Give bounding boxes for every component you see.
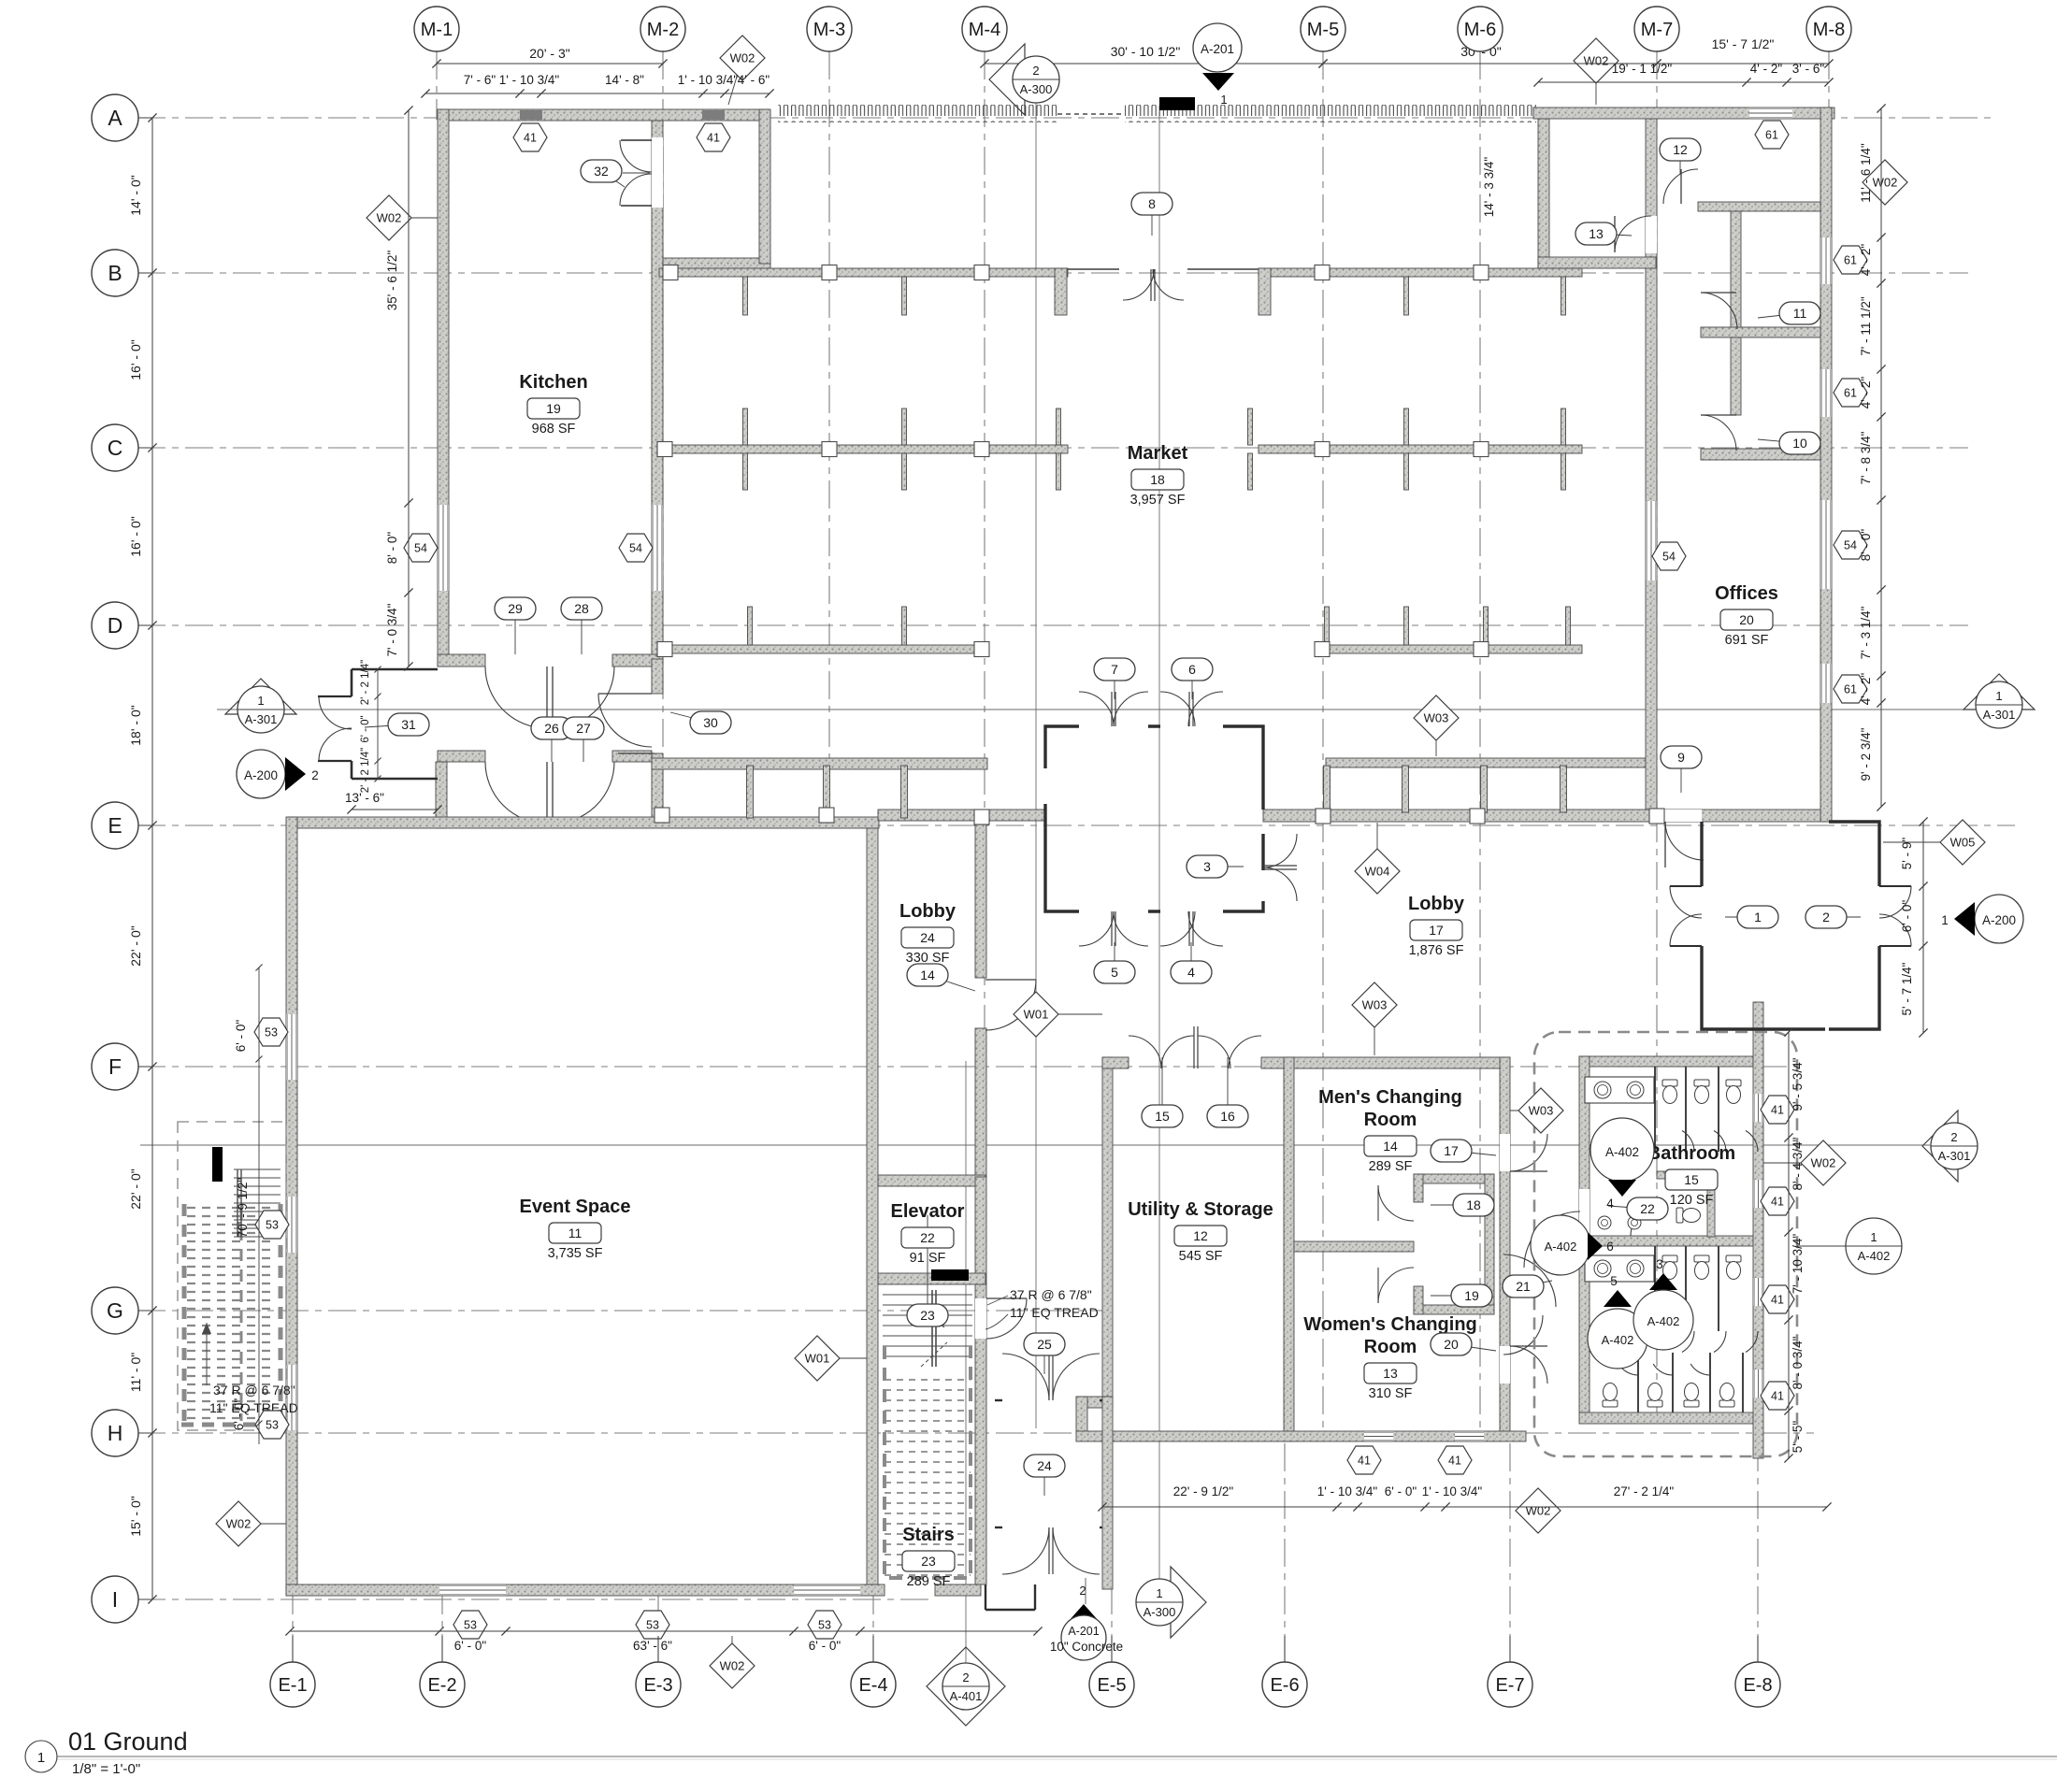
svg-text:24: 24 [920, 930, 935, 945]
grid E wall between event space and vestibule [878, 810, 1045, 821]
door tag 32 [601, 171, 625, 187]
svg-text:26: 26 [544, 721, 559, 736]
market shelf row C fins [743, 409, 748, 445]
svg-text:W02: W02 [226, 1517, 252, 1531]
svg-text:16: 16 [1220, 1109, 1235, 1124]
market shelf wall row C east [1259, 445, 1582, 453]
corridor south wall east segment [612, 751, 652, 762]
svg-text:D: D [108, 613, 123, 638]
svg-text:53: 53 [646, 1619, 659, 1632]
stair treads dashed lower [885, 1379, 971, 1381]
svg-text:29: 29 [508, 601, 523, 616]
svg-text:Stairs: Stairs [902, 1525, 955, 1545]
mens bathroom stall partitions [1654, 1067, 1656, 1152]
elevator door solid bar [931, 1269, 969, 1281]
grid bubble M-5 [1322, 29, 1324, 51]
mens bathroom sink counter [1585, 1077, 1654, 1103]
keynote hexagon 54 [1652, 542, 1686, 570]
grid bubble I [115, 1598, 152, 1600]
bathroom east dimension chain [1788, 1032, 1790, 1458]
bottom left dimension row [290, 1630, 1038, 1632]
market south storage partitions west [747, 766, 754, 818]
svg-text:A-201: A-201 [1201, 42, 1234, 56]
svg-text:4: 4 [1606, 1197, 1614, 1211]
svg-text:H: H [108, 1421, 123, 1445]
svg-text:6' - 0": 6' - 0" [809, 1639, 841, 1653]
alcove south wall [1414, 1305, 1494, 1314]
door tag 31 [365, 724, 409, 727]
svg-text:691 SF: 691 SF [1725, 633, 1769, 648]
keynote hexagon 41 [1761, 1285, 1794, 1313]
kitchen west dimension chain [408, 110, 410, 667]
svg-text:53: 53 [818, 1619, 831, 1632]
svg-text:A: A [108, 106, 122, 130]
svg-text:1: 1 [1220, 93, 1227, 107]
keynote hexagon 53 [255, 1211, 289, 1239]
svg-text:E-3: E-3 [643, 1675, 672, 1696]
svg-text:8' - 4 3/4": 8' - 4 3/4" [1791, 1137, 1805, 1190]
grid bubble M-4 [984, 29, 985, 51]
svg-text:01 Ground: 01 Ground [68, 1727, 188, 1756]
svg-text:32: 32 [594, 164, 609, 179]
utility west wall [1102, 1057, 1113, 1397]
svg-text:61: 61 [1844, 683, 1857, 696]
door tag 27 [583, 728, 584, 762]
door tag 7 [1114, 669, 1115, 699]
womens bathroom toilets lower [1603, 1383, 1618, 1408]
svg-text:21: 21 [1516, 1279, 1531, 1294]
west entry vestibule walls [352, 668, 438, 671]
event space south wall [286, 1584, 885, 1596]
grid bubble C [115, 447, 152, 449]
svg-text:16' - 0": 16' - 0" [128, 516, 143, 556]
svg-text:54: 54 [629, 542, 642, 555]
svg-text:W05: W05 [1950, 836, 1976, 850]
keynote hexagon 53 [254, 1018, 288, 1046]
offices east wall [1820, 108, 1832, 822]
wall tag W01 [817, 1357, 867, 1359]
svg-text:9' - 5 3/4": 9' - 5 3/4" [1791, 1057, 1805, 1111]
lobby 24 east wall upper [975, 817, 986, 978]
mens room south wall [1294, 1241, 1414, 1252]
svg-text:17: 17 [1444, 1143, 1459, 1158]
svg-text:11' - 6 1/4": 11' - 6 1/4" [1859, 143, 1873, 203]
stair treads solid upper flight [883, 1294, 972, 1296]
door tag 23 [928, 1315, 944, 1327]
svg-text:1' - 10 3/4": 1' - 10 3/4" [1317, 1484, 1378, 1498]
svg-text:12: 12 [1193, 1228, 1208, 1243]
wall tag W02 [1595, 61, 1597, 105]
grid bubble M-1 [436, 29, 438, 51]
wall tag W02 [731, 1636, 733, 1666]
small storage room east wall [759, 109, 770, 264]
keynote hexagon 41 [1761, 1382, 1794, 1410]
offices storage west wall [1538, 119, 1549, 268]
svg-text:18: 18 [1466, 1197, 1481, 1212]
svg-text:4' - 2": 4' - 2" [1859, 377, 1873, 409]
door 27 swing [553, 762, 614, 824]
svg-text:Bathroom: Bathroom [1647, 1143, 1735, 1164]
svg-text:4' - 2": 4' - 2" [1859, 673, 1873, 706]
wall tag W03 [1510, 1110, 1541, 1111]
keynote hexagon 54 [404, 534, 438, 562]
svg-text:M-2: M-2 [647, 20, 679, 40]
wall tag W03 [1435, 718, 1437, 756]
svg-text:W02: W02 [720, 1659, 745, 1673]
grid line E-8 [1757, 1458, 1759, 1662]
stair lobby door wall upper [995, 1399, 1002, 1401]
svg-text:C: C [108, 436, 123, 460]
svg-text:41: 41 [707, 132, 720, 145]
event space west wall [286, 817, 297, 1596]
svg-text:G: G [107, 1298, 123, 1323]
grid bubble M-3 [828, 29, 830, 51]
grid bubble E-7 [1509, 1636, 1511, 1662]
event space east wall [867, 828, 878, 1584]
keynote hexagon 53 [453, 1611, 487, 1639]
grid bubble M-6 [1479, 29, 1481, 51]
svg-text:5: 5 [1610, 1274, 1618, 1288]
svg-text:8' - 0": 8' - 0" [1859, 529, 1873, 562]
svg-text:A-402: A-402 [1858, 1249, 1891, 1263]
door 28 swing [553, 667, 614, 728]
door 29 swing [485, 667, 547, 728]
bathroom east wall [1753, 1002, 1763, 1458]
svg-text:W02: W02 [1584, 54, 1609, 68]
door 11 leaf and swing [1701, 292, 1736, 294]
grid bubble E [115, 824, 152, 826]
wall tag W04 [1376, 823, 1378, 871]
section line 2/A-401 vertical [965, 1061, 967, 1664]
svg-text:31: 31 [401, 717, 416, 732]
svg-text:22: 22 [1640, 1201, 1655, 1216]
svg-text:E-4: E-4 [858, 1675, 887, 1696]
svg-text:M-3: M-3 [813, 20, 845, 40]
door 9 leaf and swing [1664, 822, 1666, 867]
grid line I [137, 1598, 935, 1600]
svg-text:18' - 0": 18' - 0" [128, 705, 143, 745]
svg-text:11" EQ TREAD: 11" EQ TREAD [1010, 1305, 1099, 1320]
grid line M-6 [1479, 51, 1481, 1433]
door 19 swing [1378, 1268, 1414, 1303]
svg-text:M-4: M-4 [969, 20, 1000, 40]
svg-text:54: 54 [414, 542, 427, 555]
market south wall west segment [652, 758, 987, 769]
womens bathroom toilets upper [1662, 1255, 1677, 1280]
wall tag W02 [1516, 1488, 1561, 1533]
door 23 leaf and swing [986, 1297, 1027, 1299]
svg-text:5' - 9": 5' - 9" [1900, 838, 1914, 870]
svg-text:20' - 3": 20' - 3" [529, 46, 569, 61]
keynote hexagon 41 [513, 123, 547, 151]
changing rooms east wall [1500, 1057, 1510, 1433]
west stair guide arrow [206, 1323, 208, 1385]
corridor west joint wall [436, 762, 447, 828]
svg-text:3,957 SF: 3,957 SF [1130, 493, 1186, 508]
grid bubble M-7 [1656, 29, 1658, 51]
market shelf wall row D east [1317, 645, 1582, 653]
svg-text:30' - 10 1/2": 30' - 10 1/2" [1111, 44, 1181, 59]
grid bubble M-8 [1828, 29, 1830, 51]
door tag 1 [1725, 916, 1758, 918]
svg-text:4: 4 [1187, 965, 1195, 980]
kitchen south wall west segment [438, 654, 485, 667]
utility and changing divider wall [1284, 1057, 1294, 1441]
svg-text:22' - 0": 22' - 0" [128, 1168, 143, 1209]
door 8 double swing at market north [1150, 269, 1152, 301]
svg-text:1: 1 [1995, 689, 2002, 703]
svg-text:63' - 6": 63' - 6" [633, 1639, 672, 1653]
svg-text:E-2: E-2 [427, 1675, 456, 1696]
offices south wall at grid E [1263, 810, 1827, 822]
title view number circle [25, 1741, 57, 1772]
svg-text:54: 54 [1662, 551, 1676, 564]
grid line C [137, 447, 1968, 449]
svg-text:7' - 0 3/4": 7' - 0 3/4" [385, 603, 399, 656]
svg-text:W01: W01 [1024, 1008, 1049, 1022]
bathroom west wall [1579, 1056, 1589, 1412]
grid line E-2 [441, 1589, 443, 1662]
svg-text:W02: W02 [1811, 1156, 1836, 1170]
market east wall [1646, 108, 1657, 810]
door 26 swing [485, 762, 547, 824]
door tag 5 [1114, 942, 1115, 972]
market south wall east segment [1326, 758, 1650, 767]
svg-text:41: 41 [1771, 1196, 1784, 1209]
svg-text:E-1: E-1 [278, 1675, 307, 1696]
grid bubble E-2 [441, 1636, 443, 1662]
svg-text:E: E [108, 813, 122, 838]
keynote hexagon 41 [697, 123, 730, 151]
svg-text:W03: W03 [1424, 711, 1449, 725]
keynote hexagon 41 [1761, 1096, 1794, 1124]
svg-text:1,876 SF: 1,876 SF [1409, 943, 1464, 958]
svg-text:7: 7 [1111, 662, 1118, 677]
section line 2/A-300 vertical [1035, 102, 1037, 1428]
door tag 11 [1758, 313, 1800, 318]
door 20 swing [1510, 1346, 1547, 1383]
bottom middle dimension row [1102, 1506, 1827, 1508]
svg-text:W04: W04 [1365, 865, 1390, 879]
svg-text:1: 1 [37, 1750, 45, 1766]
bathroom middle wall [1579, 1236, 1762, 1246]
door 13 swing [1615, 216, 1651, 252]
svg-text:A-301: A-301 [245, 712, 278, 726]
svg-text:37 R @ 6 7/8": 37 R @ 6 7/8" [1010, 1287, 1092, 1302]
svg-text:7' - 11 1/2": 7' - 11 1/2" [1859, 296, 1873, 356]
svg-text:70' - 9 1/2": 70' - 9 1/2" [236, 1178, 250, 1239]
svg-text:9: 9 [1677, 750, 1685, 765]
svg-text:13' - 6": 13' - 6" [345, 791, 384, 805]
lobby 24 east wall lower [975, 1028, 986, 1177]
svg-text:6' - 0": 6' - 0" [1385, 1484, 1417, 1498]
svg-text:19' - 1 1/2": 19' - 1 1/2" [1612, 62, 1673, 76]
svg-text:Room: Room [1364, 1337, 1417, 1357]
keynote hexagon 41 [1347, 1446, 1381, 1474]
wall tag W03 [1374, 1005, 1375, 1055]
right grid dimension chain [1880, 108, 1882, 807]
event west dimension chain [258, 968, 260, 1444]
svg-text:1: 1 [1754, 910, 1762, 925]
svg-text:6' - 0": 6' - 0" [1900, 900, 1914, 933]
svg-text:A-402: A-402 [1647, 1314, 1680, 1328]
alcove east wall [1485, 1174, 1494, 1314]
svg-text:28: 28 [574, 601, 589, 616]
door tag 26 [551, 728, 553, 762]
dimension 30'-0" M-5 to M-7 [1323, 63, 1657, 65]
svg-text:Room: Room [1364, 1110, 1417, 1130]
svg-text:14' - 0": 14' - 0" [128, 175, 143, 215]
section marker 1/A-301 right [1963, 674, 2035, 710]
svg-text:4' - 6": 4' - 6" [738, 73, 770, 87]
svg-text:1' - 10 3/4": 1' - 10 3/4" [1422, 1484, 1483, 1498]
svg-text:25: 25 [1037, 1337, 1052, 1352]
mens lower sinks [1598, 1216, 1611, 1229]
svg-text:30: 30 [703, 715, 718, 730]
door 4 double swing [1160, 911, 1195, 946]
storefront glazing north wall [778, 105, 1057, 122]
womens bathroom stall partitions lower [1637, 1353, 1639, 1412]
kitchen north wall [438, 109, 770, 121]
womens bathroom sink counter [1585, 1255, 1654, 1282]
svg-text:2' - 2 1/4": 2' - 2 1/4" [360, 748, 371, 793]
door 18 swing [1378, 1185, 1414, 1221]
door 1 double swing [1670, 885, 1702, 887]
door tag 24 [1043, 1466, 1045, 1496]
stair east wall [975, 1284, 986, 1584]
svg-text:13: 13 [1589, 226, 1604, 241]
door tag 19 [1431, 1295, 1472, 1297]
dimension 30'-10 1/2" M-4 to M-5 [985, 63, 1323, 65]
wall tag W02 [389, 217, 438, 219]
svg-text:16' - 0": 16' - 0" [128, 339, 143, 380]
offices storage south wall [1538, 257, 1656, 268]
svg-text:61: 61 [1765, 129, 1778, 142]
svg-text:2: 2 [1032, 64, 1039, 78]
grid bubble E-1 [292, 1636, 294, 1662]
grid line M-4 [984, 51, 985, 1057]
svg-text:1: 1 [1870, 1230, 1877, 1244]
svg-text:Lobby: Lobby [1408, 894, 1465, 914]
elevator north wall [878, 1175, 985, 1186]
wall tag W02 [1863, 160, 1907, 205]
svg-text:14: 14 [1383, 1139, 1398, 1154]
svg-text:E-6: E-6 [1270, 1675, 1299, 1696]
grid line E-1 [292, 828, 294, 1662]
svg-text:14: 14 [920, 968, 935, 982]
stair break line [921, 1342, 947, 1367]
door 5 double swing [1079, 911, 1114, 946]
market shelf row B junctions [663, 265, 678, 280]
svg-text:M-6: M-6 [1464, 20, 1496, 40]
svg-text:12: 12 [1673, 142, 1688, 157]
svg-text:14' - 3 3/4": 14' - 3 3/4" [1482, 157, 1496, 218]
svg-text:6' - 0": 6' - 0" [454, 1639, 487, 1653]
svg-text:3: 3 [1203, 859, 1211, 874]
svg-text:5: 5 [1111, 965, 1118, 980]
keynote hexagon 53 [808, 1611, 841, 1639]
grid line E-7 [1509, 1441, 1511, 1662]
wall tag W05 [1883, 841, 1963, 843]
svg-text:A-402: A-402 [1605, 1145, 1639, 1159]
svg-text:13: 13 [1383, 1366, 1398, 1381]
door 32 double leaf and swing [621, 139, 652, 141]
svg-text:23: 23 [920, 1308, 935, 1323]
vestibule west dimension chain [377, 669, 379, 779]
svg-text:6' - 0": 6' - 0" [360, 715, 371, 742]
svg-text:27' - 2 1/4": 27' - 2 1/4" [1614, 1484, 1675, 1498]
svg-text:3: 3 [1656, 1257, 1663, 1271]
svg-text:54: 54 [1844, 539, 1857, 552]
svg-text:5' - 7 1/4": 5' - 7 1/4" [1900, 962, 1914, 1015]
offices north wall [1533, 108, 1834, 119]
dimension 20'-3" M-1 to M-2 [437, 63, 663, 65]
mens bathroom toilets [1662, 1080, 1677, 1104]
svg-text:22' - 0": 22' - 0" [128, 925, 143, 966]
grid line M-3 [828, 51, 830, 825]
market shelf wall row C west [659, 445, 1068, 453]
svg-text:6' - 0": 6' - 0" [234, 1020, 248, 1053]
alcove west stubs [1414, 1174, 1423, 1202]
svg-text:6: 6 [1606, 1240, 1614, 1254]
svg-text:Women's Changing: Women's Changing [1303, 1314, 1477, 1335]
door tag 25 [1043, 1344, 1045, 1374]
kitchen west wall [438, 109, 449, 667]
door 31 double leaves and swings [318, 695, 352, 697]
svg-text:61: 61 [1844, 387, 1857, 400]
svg-text:Kitchen: Kitchen [519, 372, 587, 393]
svg-text:E-5: E-5 [1097, 1675, 1126, 1696]
door 21 swing arc [1503, 1254, 1556, 1307]
market north sill line [770, 268, 1119, 270]
svg-text:W03: W03 [1529, 1104, 1554, 1118]
svg-text:W02: W02 [377, 211, 402, 225]
svg-text:5' - 5": 5' - 5" [1791, 1421, 1805, 1454]
svg-text:22' - 9 1/2": 22' - 9 1/2" [1173, 1484, 1234, 1498]
keynote hexagon 61 [1755, 121, 1789, 149]
svg-text:2: 2 [1822, 910, 1830, 925]
section marker 2/A-301 right [1922, 1111, 1958, 1182]
grid line M-5 [1322, 51, 1324, 1431]
svg-text:27: 27 [576, 721, 591, 736]
svg-text:10: 10 [1792, 436, 1807, 451]
svg-text:I: I [112, 1587, 118, 1612]
section marker 2/A-401 bottom [927, 1647, 1005, 1726]
svg-text:4' - 2": 4' - 2" [1859, 244, 1873, 277]
door tag 9 [1680, 757, 1682, 793]
market shelf row C junctions [657, 442, 672, 457]
door 17 swing [1510, 1134, 1547, 1171]
svg-text:2: 2 [1950, 1130, 1957, 1144]
west exterior stair outer dashed boundary [178, 1122, 286, 1430]
door 6 double swing [1160, 692, 1195, 726]
elevator east wall [975, 1177, 986, 1284]
event space north wall [288, 817, 879, 828]
detail marker A-402 number 3 [1649, 1273, 1677, 1290]
svg-text:11: 11 [568, 1226, 583, 1240]
grid line B [137, 272, 1968, 274]
svg-text:2: 2 [311, 768, 319, 782]
kitchen east wall [652, 121, 663, 659]
title underline full width [26, 1756, 2057, 1757]
section line 1/A-300 vertical [1158, 112, 1160, 1580]
svg-text:289 SF: 289 SF [1369, 1159, 1413, 1174]
door tag 29 [514, 609, 516, 654]
market south storage partitions east [1324, 766, 1331, 812]
southeast room walls [1702, 822, 1879, 1029]
svg-text:E-8: E-8 [1743, 1675, 1772, 1696]
grid bubble E-6 [1284, 1636, 1286, 1662]
